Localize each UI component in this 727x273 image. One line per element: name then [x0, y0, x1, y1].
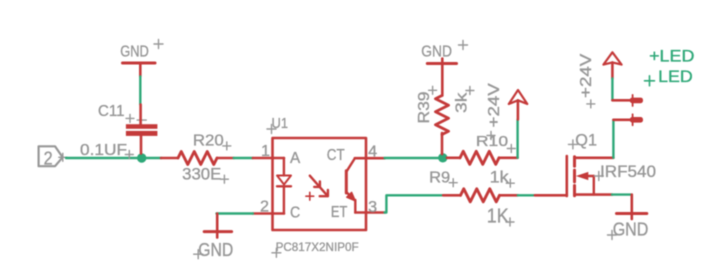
- svg-text:GND: GND: [198, 239, 233, 260]
- resistor R10: [447, 151, 518, 164]
- label 1K: [487, 206, 514, 228]
- wire R10 to +24V supply 1: [516, 119, 518, 157]
- resistor R39: [436, 65, 449, 154]
- label R39: [416, 86, 437, 123]
- wire U1 pin2 to GND2: [217, 212, 253, 214]
- svg-text:+LED: +LED: [649, 47, 694, 66]
- svg-text:R20: R20: [193, 133, 224, 150]
- node junction A: [137, 153, 146, 162]
- resistor R9: [443, 189, 518, 202]
- label C11: [98, 103, 134, 122]
- label R9: [429, 170, 457, 187]
- svg-text:+24V: +24V: [578, 53, 595, 98]
- svg-text:0.1UF: 0.1UF: [80, 142, 127, 159]
- label +24V supply2: [578, 53, 595, 108]
- svg-text:GND: GND: [613, 219, 649, 240]
- node junction B: [438, 153, 447, 162]
- label 1k: [490, 169, 515, 188]
- net label 0.1UF: [80, 142, 133, 159]
- part origin cross: [306, 192, 314, 200]
- wire R9 to Q1 gate: [518, 194, 535, 196]
- net label LED with origin cross: [645, 67, 693, 86]
- svg-text:+24V: +24V: [486, 82, 503, 127]
- U1 pin 4: [355, 157, 385, 160]
- U1 pin 2: [253, 212, 284, 215]
- resistor R20: [161, 152, 234, 165]
- capacitor C11: [126, 105, 157, 154]
- light arrows: [310, 176, 328, 197]
- svg-text:3: 3: [368, 199, 377, 216]
- svg-text:PC817X2NIP0F: PC817X2NIP0F: [276, 240, 359, 254]
- wire pin2 to junction: [66, 157, 138, 159]
- U1 pin 1: [253, 157, 284, 160]
- label PC817X2NIP0F: [272, 240, 359, 257]
- svg-text:1: 1: [261, 143, 270, 160]
- wire Q1 source to GND4: [612, 193, 631, 195]
- pin +LED upper: [612, 95, 643, 106]
- svg-text:1K: 1K: [487, 206, 510, 228]
- ground GND1 top-left: [120, 40, 163, 77]
- wire junction to R20: [146, 157, 162, 159]
- svg-text:IRF540: IRF540: [600, 163, 656, 181]
- label U1: [267, 115, 288, 134]
- ground GND4 bottom-right: [608, 195, 649, 240]
- svg-text:GND: GND: [421, 44, 452, 61]
- svg-text:GND: GND: [120, 44, 149, 61]
- svg-text:330E: 330E: [182, 165, 221, 184]
- wire GND1 to C11: [139, 77, 141, 105]
- LED diode inside U1: [277, 158, 291, 214]
- ground GND2 bottom-left: [194, 214, 234, 261]
- label R20: [193, 133, 231, 150]
- svg-text:R39: R39: [416, 92, 433, 124]
- wire pin4 to junction B: [385, 157, 440, 159]
- svg-text:2: 2: [44, 149, 53, 169]
- svg-text:3k: 3k: [454, 92, 471, 113]
- ground GND3 above R39: [421, 41, 467, 64]
- wire pin3 elbow to R9: [385, 195, 444, 212]
- label IRF540: [594, 163, 656, 181]
- svg-text:R9: R9: [429, 170, 450, 187]
- svg-text:LED: LED: [658, 67, 693, 86]
- wire +24V to pin +LED: [611, 79, 613, 101]
- label +24V supply1: [486, 82, 503, 139]
- transistor Q1 MOSFET: [535, 156, 614, 196]
- svg-text:Q1: Q1: [575, 131, 597, 150]
- supply +24V arrow 1: [509, 90, 528, 119]
- label 3k: [454, 87, 474, 114]
- wire Q1 drain riser: [612, 120, 614, 158]
- label Q1: [568, 131, 597, 150]
- node 2 pin connector: [39, 146, 67, 168]
- supply +24V arrow 2: [603, 52, 621, 78]
- label R10: [476, 133, 515, 153]
- phototransistor: [346, 158, 355, 212]
- svg-text:C: C: [290, 205, 300, 222]
- svg-text:ET: ET: [331, 204, 348, 221]
- optocoupler U1 box: [273, 138, 367, 230]
- svg-text:C11: C11: [98, 103, 125, 120]
- svg-text:A: A: [290, 150, 301, 167]
- wire R20 to U1 pin 1: [234, 157, 253, 159]
- svg-text:2: 2: [260, 199, 269, 216]
- svg-text:CT: CT: [327, 147, 345, 164]
- U1 pin 3: [355, 211, 384, 214]
- svg-text:4: 4: [368, 144, 377, 161]
- label 330E: [182, 165, 228, 184]
- pin -LED lower: [613, 114, 643, 125]
